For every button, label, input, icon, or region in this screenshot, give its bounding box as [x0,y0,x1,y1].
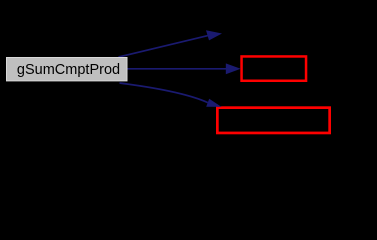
svg-text:gSumCmptProd: gSumCmptProd [17,62,120,78]
